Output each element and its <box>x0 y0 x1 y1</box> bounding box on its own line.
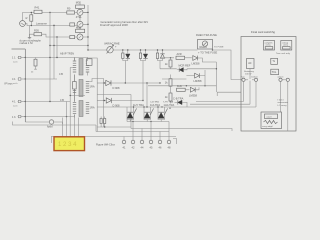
svg-text:before: before <box>252 75 259 78</box>
opto U3 <box>189 87 199 97</box>
node <box>31 12 32 13</box>
svg-text:LM358: LM358 <box>194 79 202 83</box>
wire <box>25 101 70 103</box>
meter M1 <box>77 9 83 15</box>
svg-text:AC: AC <box>248 62 252 65</box>
svg-text:TO FUSE: TO FUSE <box>214 46 224 48</box>
wire <box>53 25 55 80</box>
wire hline y93 <box>97 94 131 96</box>
wire <box>56 37 58 58</box>
wire <box>30 13 32 26</box>
scope box <box>261 112 282 129</box>
wire row3 out <box>217 92 241 96</box>
wire lower route <box>13 122 97 126</box>
diode D6 <box>97 80 160 90</box>
rheostat RV1 <box>104 42 120 54</box>
svg-text:count: count <box>267 115 272 118</box>
wire y136.5 <box>51 136 176 138</box>
wire <box>25 78 57 80</box>
wire <box>63 102 79 138</box>
thyristor Q2 <box>143 103 160 121</box>
resistor R7 <box>76 29 85 32</box>
svg-text:1HY TRA: 1HY TRA <box>133 103 144 107</box>
svg-text:1HA TRA: 1HA TRA <box>164 103 175 107</box>
svg-text:AB IP TR3N: AB IP TR3N <box>60 52 74 56</box>
wire <box>287 81 289 131</box>
svg-text:4 1: 4 1 <box>12 77 16 81</box>
resistor R10 vertical <box>169 60 172 67</box>
resistor R9 hanging <box>34 59 37 66</box>
wire <box>49 13 51 102</box>
tick <box>169 107 171 109</box>
diode pair D1a D1b <box>122 49 130 83</box>
svg-text:I fed it: I fed it <box>278 98 284 101</box>
svg-text:4 B: 4 B <box>60 98 64 102</box>
transformer T3 <box>73 99 95 118</box>
svg-text:Stationary: Stationary <box>244 70 255 73</box>
svg-text:+ TO THE FUSE: + TO THE FUSE <box>198 51 218 55</box>
wire vertical chain <box>79 4 81 40</box>
svg-text:MCR REF: MCR REF <box>179 63 191 67</box>
svg-text:RHEO TRA FUSE: RHEO TRA FUSE <box>196 33 217 37</box>
wire <box>42 34 77 37</box>
wire box top <box>12 48 26 50</box>
svg-text:TCL: TCL <box>272 71 277 74</box>
bus wires to column <box>83 12 88 37</box>
resistor R14 <box>177 88 186 91</box>
bus B2 vertical <box>24 49 26 122</box>
svg-text:carry wdgtl: carry wdgtl <box>262 125 273 128</box>
svg-text:4 B: 4 B <box>59 72 63 76</box>
wire bus y50 <box>88 49 198 51</box>
wire mid horizontal <box>50 45 88 47</box>
snubber parts <box>100 117 106 128</box>
wire vline x131 <box>130 95 132 129</box>
svg-text:Lamanne: Lamanne <box>36 22 47 26</box>
wire y131.5 <box>96 131 169 133</box>
svg-text:R05: R05 <box>34 29 39 33</box>
svg-text:1RA: 1RA <box>90 106 95 110</box>
wire SCR cathode bus y121.5 <box>127 121 169 123</box>
wire <box>160 58 176 69</box>
box TCL <box>271 69 279 75</box>
wire <box>54 122 63 124</box>
svg-text:1RA: 1RA <box>90 85 95 89</box>
diode pair D3a D3b <box>156 49 164 69</box>
transformer T2 <box>70 68 95 138</box>
wire y101.5 <box>196 101 244 103</box>
display DS1 <box>54 137 85 151</box>
bus B1 vertical <box>87 5 89 50</box>
wire y127 <box>97 126 131 128</box>
box Tx <box>271 58 278 64</box>
svg-text:Final card switchhg: Final card switchhg <box>251 30 275 34</box>
opto U2 <box>186 70 205 86</box>
wire <box>23 13 89 21</box>
svg-text:Two cash only: Two cash only <box>276 53 291 55</box>
resistor R4 on top row <box>67 11 75 14</box>
fuse F1 circle <box>49 120 53 124</box>
node <box>49 12 50 13</box>
svg-text:1kG: 1kG <box>177 84 182 88</box>
resistor R12 vertical <box>169 79 172 87</box>
wire <box>95 125 97 132</box>
meter M2 <box>77 21 83 27</box>
box AC <box>244 59 255 76</box>
diode pair D2a D2b <box>139 49 147 100</box>
wire bottom route <box>25 121 49 123</box>
diode D7 <box>97 98 143 108</box>
resistor R6 row2 <box>70 23 75 26</box>
wire <box>89 79 103 128</box>
thyristor Q1 <box>127 103 144 121</box>
wire y128.5 long right <box>131 129 232 132</box>
svg-text:M32: M32 <box>76 25 82 29</box>
wire <box>25 116 74 118</box>
bracket <box>173 139 177 145</box>
svg-text:LM358: LM358 <box>189 93 197 97</box>
meter box RHEO <box>196 33 218 55</box>
svg-text:1234: 1234 <box>58 142 78 148</box>
panel terminals <box>241 75 290 81</box>
wire <box>148 79 216 86</box>
wire <box>25 24 77 26</box>
svg-text:R41: R41 <box>35 6 40 10</box>
wire <box>88 58 98 132</box>
wire y104.2 <box>190 103 250 105</box>
meter M3 <box>77 34 83 40</box>
svg-text:LM358: LM358 <box>192 62 200 66</box>
transformer T1 <box>73 58 92 79</box>
svg-text:Final AP approved 2008: Final AP approved 2008 <box>100 23 128 27</box>
LED D5 <box>173 97 187 107</box>
LED D4 <box>176 63 191 72</box>
wire <box>25 57 88 59</box>
wire long gate bus y107 <box>97 106 256 108</box>
resistor R1 <box>34 10 42 13</box>
resistor R5 <box>76 5 85 8</box>
svg-text:LC sensy: LC sensy <box>278 105 288 107</box>
resistor R2 (vertical) <box>30 15 33 21</box>
svg-text:T-PO TRA: T-PO TRA <box>163 100 174 103</box>
svg-text:malvat 1 NI: malvat 1 NI <box>20 41 33 45</box>
svg-text:1 b: 1 b <box>12 115 16 119</box>
resistor R3 <box>34 33 42 36</box>
svg-text:autonomia: autonomia <box>278 101 289 104</box>
terminal TB1 <box>122 122 171 150</box>
wire <box>255 81 257 107</box>
svg-text:C-B TRA: C-B TRA <box>150 100 159 103</box>
tick <box>51 137 53 144</box>
opto U1 <box>192 56 217 66</box>
svg-text:Figure WA-C6xx: Figure WA-C6xx <box>96 143 116 147</box>
svg-text:100 W: 100 W <box>245 74 252 76</box>
wire row1 out <box>187 68 216 70</box>
resistor R8 row3 <box>70 36 75 39</box>
panel box <box>241 37 296 132</box>
svg-text:RHEO: RHEO <box>200 45 208 49</box>
wire <box>30 26 35 35</box>
ground <box>28 34 31 39</box>
svg-text:11A TRA: 11A TRA <box>150 103 160 107</box>
resistor R13 vertical <box>169 93 172 101</box>
wire <box>243 81 245 101</box>
svg-text:VARIAC RHE: VARIAC RHE <box>104 42 120 46</box>
wire <box>280 81 282 112</box>
svg-text:D 908: D 908 <box>113 86 120 90</box>
svg-text:4 1: 4 1 <box>12 100 16 104</box>
AC source G1 <box>20 21 26 27</box>
svg-text:M30: M30 <box>76 0 82 4</box>
svg-text:4T2L: 4T2L <box>76 15 82 19</box>
relay K2 <box>281 41 292 51</box>
svg-text:IP krus: IP krus <box>5 82 14 86</box>
wire <box>249 69 251 105</box>
svg-text:R0: R0 <box>67 6 71 10</box>
svg-text:AVR: AVR <box>177 52 182 56</box>
svg-text:1 1: 1 1 <box>12 56 16 60</box>
resistor R11 <box>176 56 185 59</box>
wire vline x147 <box>146 83 148 107</box>
thyristor Q3 <box>157 103 174 121</box>
wire to panel <box>213 50 242 80</box>
relay K1 <box>264 41 275 51</box>
